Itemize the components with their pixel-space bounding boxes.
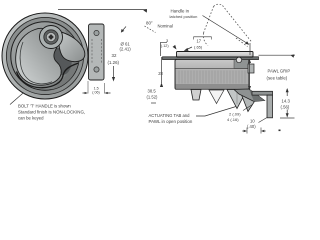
- svg-text:(.06): (.06): [92, 91, 100, 95]
- keeper lip: [252, 91, 273, 95]
- pawl grip dim line: [249, 59, 251, 90]
- front view outer flange circle: [2, 13, 88, 99]
- keeper height dim: [286, 89, 288, 96]
- actuating tab leader: [196, 107, 236, 117]
- svg-text:1.5: 1.5: [94, 86, 99, 90]
- dia 61 leader: [123, 27, 127, 31]
- raised handle dashed cap: [214, 4, 223, 6]
- body right section: [234, 60, 249, 69]
- note leader: [10, 93, 24, 105]
- svg-text:(1.26): (1.26): [108, 60, 120, 65]
- body bottom band: [176, 84, 249, 89]
- pawl facet: [249, 89, 265, 102]
- svg-text:(2.41): (2.41): [120, 47, 132, 52]
- lock boss ring: [44, 30, 58, 44]
- projection line top: [58, 9, 147, 11]
- raised handle dashed bottom: [203, 33, 208, 46]
- front view recess circle: [11, 22, 79, 90]
- dim 3 bracket: [161, 42, 168, 56]
- pawl lower wedge: [241, 94, 257, 112]
- svg-text:32: 32: [112, 53, 117, 58]
- depth tick: [151, 102, 156, 104]
- tab inner line: [236, 91, 238, 104]
- dim 10 lines: [242, 128, 266, 134]
- body knurl band: [176, 70, 249, 84]
- svg-text:28: 28: [158, 71, 163, 76]
- svg-text:Handle in: Handle in: [171, 9, 190, 14]
- svg-text:10: 10: [250, 119, 255, 124]
- svg-text:ACTUATING TAB and: ACTUATING TAB and: [149, 113, 191, 118]
- svg-text:BOLT 'T' HANDLE is shown: BOLT 'T' HANDLE is shown: [18, 104, 71, 109]
- svg-text:(.40): (.40): [247, 124, 256, 129]
- svg-text:4 (.16): 4 (.16): [227, 117, 239, 122]
- svg-text:(.12): (.12): [161, 44, 169, 48]
- svg-text:PAWL in open position: PAWL in open position: [149, 119, 193, 124]
- keeper leg: [267, 95, 273, 118]
- svg-text:(.65): (.65): [194, 44, 203, 49]
- projection arrow: [143, 9, 147, 12]
- svg-text:Standard finish is NON-LOCKING: Standard finish is NON-LOCKING,: [18, 110, 85, 115]
- raised handle dashed right edge: [223, 6, 253, 43]
- svg-text:(see table): (see table): [267, 76, 288, 81]
- bracket hole bottom: [94, 67, 99, 72]
- recess shadow crescent: [51, 29, 79, 89]
- svg-text:14.3: 14.3: [282, 98, 291, 103]
- dim leader to pawl: [243, 105, 253, 111]
- svg-text:38.5: 38.5: [148, 89, 157, 94]
- dim 17 bracket: [194, 37, 212, 40]
- front view flange ring: [6, 17, 83, 94]
- svg-text:(1.52): (1.52): [147, 95, 159, 100]
- raised handle dashed inner: [236, 38, 248, 47]
- svg-text:17: 17: [197, 39, 202, 44]
- panel strip: [163, 57, 259, 60]
- stud A: [191, 90, 201, 101]
- keeper bracket plate: [89, 24, 105, 80]
- pivot extension line: [249, 43, 251, 55]
- bracket hole top: [94, 30, 99, 35]
- dim 1.5 arrows: [83, 92, 111, 94]
- latch body side: [175, 59, 249, 89]
- dim 10 leader: [259, 118, 268, 123]
- stray tick: [279, 130, 281, 132]
- body parting line: [176, 68, 249, 70]
- bracket extension lines: [88, 81, 104, 94]
- grip inner contour: [20, 42, 52, 84]
- notch dark wedge: [54, 48, 72, 75]
- handle position leader: [203, 16, 248, 44]
- key cross: [48, 34, 54, 40]
- panel extension line: [259, 54, 296, 56]
- bracket hidden lines: [92, 39, 102, 64]
- handle wing: [59, 32, 85, 62]
- svg-text:2 (.09): 2 (.09): [229, 112, 241, 117]
- pawl arm: [234, 89, 265, 102]
- grip shadow line: [17, 63, 79, 88]
- lock boss outer: [40, 26, 63, 49]
- body side tab: [248, 64, 254, 73]
- svg-text:80°: 80°: [146, 21, 153, 26]
- lock boss plug: [46, 32, 55, 41]
- depth arrow up: [160, 83, 163, 88]
- pivot pin: [236, 57, 241, 62]
- svg-text:latched position: latched position: [170, 14, 198, 19]
- handle plate side: [177, 52, 254, 58]
- svg-text:can be keyed: can be keyed: [18, 116, 44, 121]
- dim 17 leader: [186, 47, 193, 50]
- keeper bottom extension: [280, 117, 295, 119]
- svg-text:Nominal: Nominal: [158, 24, 173, 29]
- raised handle dashed left edge: [204, 7, 214, 34]
- actuating tab: [227, 90, 247, 109]
- angle dashed arc: [145, 26, 156, 33]
- dim 32 line: [113, 66, 115, 78]
- svg-text:PAWL GRIP: PAWL GRIP: [268, 69, 291, 74]
- depth dim line: [161, 57, 163, 83]
- handle grip: [16, 28, 62, 85]
- pawl phantom triangle: [209, 90, 224, 104]
- dim 3 arrow: [173, 45, 177, 50]
- svg-text:(.56): (.56): [281, 105, 290, 110]
- svg-text:3: 3: [166, 38, 169, 43]
